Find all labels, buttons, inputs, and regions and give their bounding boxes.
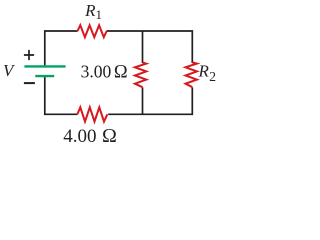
wire: left side and top-left segment [45,31,78,65]
resistor R1 zigzag (top) [78,25,107,37]
wire: bottom-left segment and left side up to battery [45,77,78,114]
resistor 4.00-ohm zigzag (bottom) [77,107,107,121]
svg-text:R2: R2 [198,61,217,84]
battery V positive plate [24,65,65,67]
svg-text:V: V [3,61,16,80]
wire: middle branch bottom stub [142,87,144,114]
svg-text:R1: R1 [84,1,102,22]
battery V negative plate [35,75,54,77]
minus sign of battery [24,82,35,84]
wire: middle branch top stub [142,31,144,63]
resistor R2 zigzag (right vertical) [186,62,197,87]
resistor 3.00-ohm zigzag (middle vertical) [135,62,146,87]
svg-text:4.00Ω: 4.00Ω [63,125,117,147]
wire: top segment from R1 to top-right corner and down to R2 [107,31,193,63]
wire: right branch bottom stub and bottom segment to 4-ohm resistor [108,87,192,114]
svg-text:3.00Ω: 3.00Ω [81,62,128,83]
plus sign of battery [24,50,34,60]
